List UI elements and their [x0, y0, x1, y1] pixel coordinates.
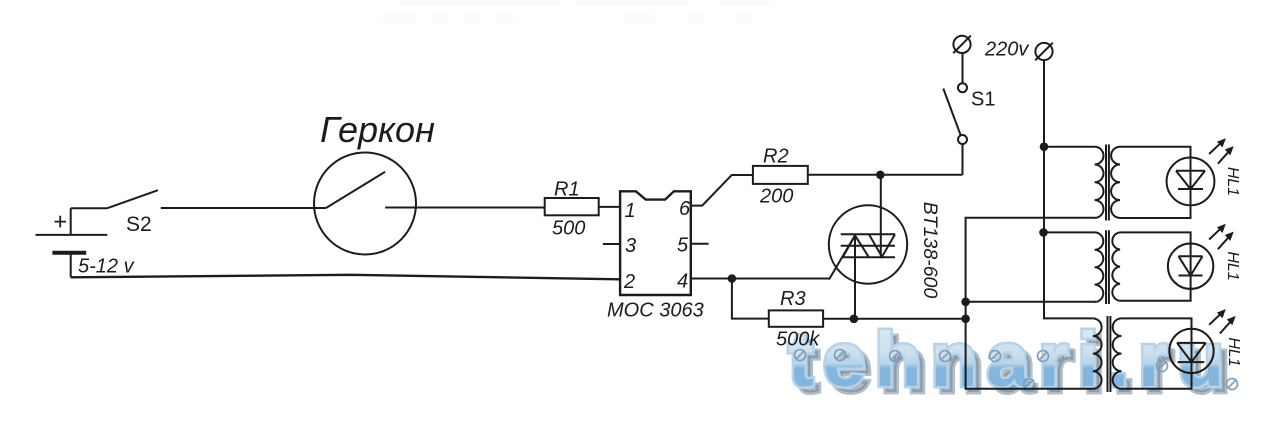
svg-text:HL1: HL1 — [1224, 167, 1241, 196]
node junction dot T2 primary top — [1039, 228, 1048, 237]
transformer T2 primary top lead — [1044, 231, 1095, 233]
triac MT1 lead down — [854, 235, 856, 318]
wire S1 up to terminal — [962, 53, 964, 83]
transformer T1 core — [1106, 145, 1109, 221]
LED HL1c arrows — [1209, 311, 1234, 333]
battery BT short negative plate — [52, 251, 86, 255]
switch S2 blade — [107, 190, 158, 208]
faint leftover title marks — [400, 0, 560, 6]
svg-text:1: 1 — [625, 200, 636, 222]
switch S1 lower lead down and left wire — [962, 144, 964, 175]
triac VS1 circle — [829, 205, 907, 283]
LED HL1a circle — [1167, 158, 1215, 206]
triac MT2 lead up — [880, 175, 882, 257]
svg-text:500: 500 — [552, 218, 585, 240]
svg-text:Геркон: Геркон — [320, 109, 435, 150]
wire right terminal down the 1044 bus to T3 primary top — [1044, 60, 1093, 318]
node junction dot triac MT1 — [850, 315, 859, 324]
svg-text:R2: R2 — [763, 146, 789, 168]
svg-text:HL1: HL1 — [1225, 337, 1242, 366]
svg-text:5-12 v: 5-12 v — [78, 256, 135, 278]
svg-text:6: 6 — [679, 198, 691, 220]
battery BT long positive plate — [36, 234, 108, 236]
wire S2 right lead to reed circle — [161, 207, 326, 209]
svg-text:MOC 3063: MOC 3063 — [607, 300, 704, 322]
switch S1 lower contact — [958, 135, 967, 144]
svg-text:3: 3 — [625, 235, 636, 257]
svg-text:S1: S1 — [971, 89, 995, 111]
pin 5 stub — [691, 243, 709, 245]
svg-text:500k: 500k — [776, 329, 820, 351]
transformer T3 secondary loop to LED — [1122, 318, 1192, 388]
wire battery plus up to S2 — [70, 208, 72, 235]
LED HL1c diode symbol — [1177, 329, 1206, 373]
switch S1 blade — [943, 89, 961, 136]
transformer T3 primary winding — [1093, 318, 1102, 388]
triac gate lead — [829, 235, 855, 279]
LED HL1b diode symbol — [1179, 244, 1203, 289]
IC U1 MOC 3063 body with notch — [620, 191, 691, 295]
resistor R1 body — [545, 198, 599, 215]
left bus 966 vertical with turns to T1 bottom / T3 bottom — [966, 218, 1095, 389]
transformer T2 primary winding — [1095, 232, 1104, 302]
resistor R2 body — [753, 166, 808, 184]
pin 3 stub — [603, 243, 620, 245]
wire T2 primary bottom — [966, 301, 1096, 303]
wire R3 left lead down — [732, 279, 769, 319]
svg-text:2: 2 — [623, 271, 635, 293]
terminal X1 220v left — [953, 36, 970, 53]
wire reed right contact to R1 — [385, 207, 545, 209]
switch S1 upper contact — [958, 83, 967, 92]
resistor R3 body — [769, 310, 823, 326]
svg-text:200: 200 — [759, 186, 793, 208]
transformer T2 core — [1106, 230, 1109, 304]
transformer T2 secondary loop to LED — [1120, 232, 1191, 300]
svg-text:S2: S2 — [126, 213, 152, 236]
svg-text:R1: R1 — [554, 179, 580, 201]
svg-text:HL1: HL1 — [1224, 251, 1241, 280]
transformer T3 core — [1108, 316, 1111, 392]
wire S2 left lead — [71, 207, 108, 209]
transformer T2 secondary winding — [1112, 232, 1120, 300]
triac middle bar — [841, 245, 895, 247]
LED HL1b circle — [1168, 244, 1213, 289]
transformer T1 primary top lead — [1044, 146, 1095, 148]
wire R3 right to bus — [823, 318, 966, 320]
svg-text:5: 5 — [677, 234, 689, 256]
LED HL1c circle — [1169, 329, 1213, 373]
LED HL1a diode symbol — [1176, 158, 1205, 206]
triac bottom bar — [842, 256, 896, 258]
svg-text:BT138-600: BT138-600 — [919, 202, 941, 299]
reed switch circle (Геркон) — [314, 153, 416, 255]
wire R1 to pin 1 — [599, 206, 620, 208]
pin 6 wire diagonal to R2 — [691, 175, 753, 206]
wire R2 right to S1 branch — [808, 174, 963, 176]
pin 4 wire to gate — [691, 278, 830, 280]
bottom supply wire to pin 2 — [71, 275, 620, 280]
transformer T1 secondary winding — [1111, 147, 1120, 218]
watermark tehnari.ru — [794, 328, 1239, 405]
transformer T1 secondary loop to LED — [1120, 147, 1191, 218]
LED HL1b arrows — [1209, 226, 1232, 249]
battery BT plus sign — [55, 216, 67, 228]
svg-text:R3: R3 — [780, 288, 806, 310]
svg-text:4: 4 — [677, 270, 688, 292]
triac right triangle — [869, 234, 895, 256]
node junction dot T2 primary bottom on bus — [961, 298, 970, 307]
triac top bar — [841, 233, 895, 235]
triac left triangle — [843, 235, 869, 257]
node junction dot bus/R3 line — [961, 315, 970, 324]
svg-text:220v: 220v — [984, 39, 1029, 61]
wire battery minus down — [70, 253, 72, 278]
transformer T3 secondary winding — [1113, 318, 1122, 388]
node junction dot R2/triac MT2 — [876, 171, 885, 180]
LED HL1a arrows — [1209, 140, 1232, 163]
transformer T1 primary winding — [1095, 147, 1104, 218]
terminal X2 220v right — [1035, 43, 1052, 60]
reed switch blade — [326, 172, 385, 208]
node junction dot T1 primary top — [1040, 142, 1049, 151]
node junction dot pin4/R3 — [728, 274, 737, 283]
